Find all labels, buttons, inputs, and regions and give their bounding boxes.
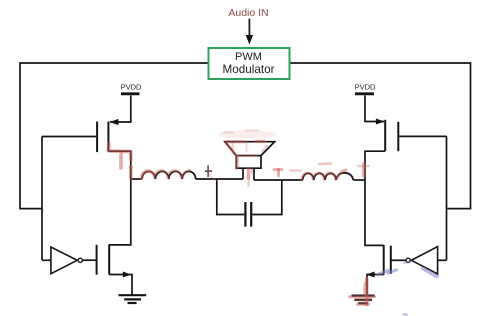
svg-text:PVDD: PVDD <box>355 83 376 92</box>
svg-text:Modulator: Modulator <box>223 63 275 76</box>
svg-text:PVDD: PVDD <box>121 83 142 92</box>
svg-text:PWM: PWM <box>235 51 262 63</box>
svg-text:Audio IN: Audio IN <box>228 7 268 19</box>
